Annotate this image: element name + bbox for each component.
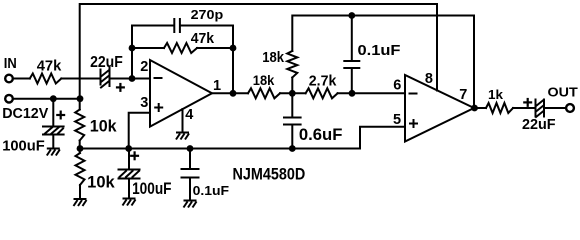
svg-text:4: 4 xyxy=(185,107,193,123)
svg-text:DC12V: DC12V xyxy=(2,105,49,122)
svg-text:270p: 270p xyxy=(191,7,224,22)
svg-text:0.1uF: 0.1uF xyxy=(193,183,230,198)
svg-text:47k: 47k xyxy=(191,31,215,47)
svg-text:10k: 10k xyxy=(87,173,116,191)
svg-text:1: 1 xyxy=(213,78,221,94)
svg-text:5: 5 xyxy=(393,112,401,128)
svg-text:NJM4580D: NJM4580D xyxy=(233,165,306,184)
svg-text:100uF: 100uF xyxy=(132,179,171,198)
svg-text:6: 6 xyxy=(393,78,401,94)
svg-text:47k: 47k xyxy=(37,58,62,74)
svg-text:22uF: 22uF xyxy=(90,54,123,71)
svg-text:2.7k: 2.7k xyxy=(309,73,337,89)
svg-text:8: 8 xyxy=(425,71,433,87)
svg-text:3: 3 xyxy=(140,95,148,111)
svg-text:7: 7 xyxy=(459,87,467,103)
svg-text:0.6uF: 0.6uF xyxy=(299,126,343,144)
svg-text:10k: 10k xyxy=(90,118,118,136)
svg-text:2: 2 xyxy=(140,59,148,75)
svg-text:1k: 1k xyxy=(488,87,504,102)
svg-text:IN: IN xyxy=(4,56,17,72)
svg-text:18k: 18k xyxy=(253,72,275,88)
svg-text:0.1uF: 0.1uF xyxy=(358,42,401,59)
svg-text:22uF: 22uF xyxy=(522,117,556,133)
svg-text:100uF: 100uF xyxy=(2,138,45,155)
svg-text:18k: 18k xyxy=(262,49,284,66)
svg-text:OUT: OUT xyxy=(548,85,578,100)
